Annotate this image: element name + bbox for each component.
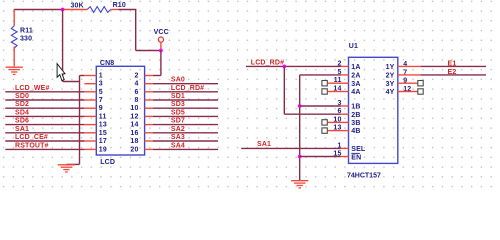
svg-text:330: 330	[20, 35, 32, 42]
svg-text:SD6: SD6	[15, 118, 29, 125]
svg-text:SEL: SEL	[351, 146, 366, 153]
svg-text:CN8: CN8	[100, 60, 114, 67]
svg-text:LCD: LCD	[100, 159, 115, 166]
svg-text:4: 4	[134, 81, 138, 88]
svg-text:SA3: SA3	[171, 134, 185, 141]
svg-text:19: 19	[99, 146, 107, 153]
svg-text:1: 1	[99, 73, 103, 80]
svg-text:3A: 3A	[351, 81, 360, 88]
svg-text:17: 17	[99, 138, 107, 145]
svg-text:E1: E1	[448, 61, 457, 68]
svg-text:4A: 4A	[351, 89, 360, 96]
svg-text:LCD_RD#: LCD_RD#	[171, 85, 204, 92]
svg-text:1Y: 1Y	[386, 64, 395, 71]
svg-text:14: 14	[130, 122, 138, 129]
svg-text:SD0: SD0	[15, 93, 29, 100]
svg-text:3Y: 3Y	[386, 81, 395, 88]
svg-text:LCD_WE#: LCD_WE#	[15, 85, 50, 92]
svg-text:20: 20	[130, 146, 138, 153]
svg-text:5: 5	[99, 89, 103, 96]
svg-text:SD4: SD4	[15, 109, 29, 116]
svg-text:2Y: 2Y	[386, 73, 395, 80]
svg-text:SD3: SD3	[171, 101, 185, 108]
svg-text:2A: 2A	[351, 73, 360, 80]
svg-text:74HCT157: 74HCT157	[347, 173, 381, 180]
svg-text:15: 15	[99, 130, 107, 137]
svg-text:2: 2	[134, 73, 138, 80]
svg-text:16: 16	[130, 130, 138, 137]
svg-text:18: 18	[130, 138, 138, 145]
svg-text:30K: 30K	[71, 2, 84, 9]
svg-text:RSTOUT#: RSTOUT#	[15, 142, 49, 149]
svg-text:LCD_RD#: LCD_RD#	[251, 60, 284, 67]
svg-text:SA1: SA1	[257, 141, 271, 148]
svg-text:4Y: 4Y	[386, 89, 395, 96]
svg-text:2B: 2B	[351, 112, 360, 119]
svg-text:SA1: SA1	[15, 126, 29, 133]
svg-text:3B: 3B	[351, 120, 360, 127]
svg-text:SA2: SA2	[171, 126, 185, 133]
svg-text:12: 12	[130, 113, 138, 120]
svg-text:1A: 1A	[351, 64, 360, 71]
svg-text:SD1: SD1	[171, 93, 185, 100]
svg-text:SA0: SA0	[171, 77, 185, 84]
svg-text:VCC: VCC	[154, 29, 169, 36]
svg-text:13: 13	[99, 122, 107, 129]
svg-text:1B: 1B	[351, 104, 360, 111]
svg-text:8: 8	[134, 97, 138, 104]
svg-text:10: 10	[130, 105, 138, 112]
svg-text:EN: EN	[351, 155, 361, 162]
svg-text:SD7: SD7	[171, 118, 185, 125]
svg-text:LCD_CE#: LCD_CE#	[15, 134, 48, 141]
svg-text:11: 11	[99, 113, 107, 120]
svg-text:7: 7	[99, 97, 103, 104]
svg-text:6: 6	[134, 89, 138, 96]
svg-text:U1: U1	[349, 43, 358, 50]
svg-text:R10: R10	[113, 2, 126, 9]
svg-text:R11: R11	[20, 28, 33, 35]
svg-text:E2: E2	[448, 69, 457, 76]
svg-text:9: 9	[99, 105, 103, 112]
svg-text:SD5: SD5	[171, 109, 185, 116]
svg-text:SA4: SA4	[171, 142, 185, 149]
svg-text:3: 3	[99, 81, 103, 88]
svg-text:SD2: SD2	[15, 101, 29, 108]
svg-text:4B: 4B	[351, 128, 360, 135]
